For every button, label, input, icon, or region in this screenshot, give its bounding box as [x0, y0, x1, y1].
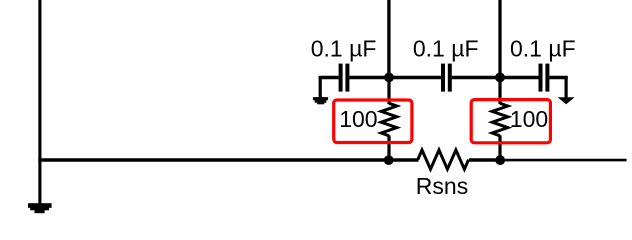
wire: top vertical feed to node A — [387, 0, 390, 77]
svg-text:0.1 µF: 0.1 µF — [510, 35, 576, 61]
junction: node B upper (caps rail / R2 top) — [495, 73, 505, 83]
wire: C2 right plate to node B — [452, 76, 500, 80]
svg-text:0.1 µF: 0.1 µF — [311, 35, 377, 61]
junction: bottom node B (R2 bottom / sense line) — [495, 155, 505, 165]
resistor Rsns horizontal zigzag — [418, 150, 469, 169]
svg-text:100: 100 — [339, 106, 377, 132]
wire: node B to C3 left plate — [500, 76, 539, 80]
capacitor C1 0.1uF plates — [341, 64, 348, 92]
wire: C3 right lead — [549, 76, 567, 80]
resistor R1 100 ohm vertical zigzag — [381, 103, 397, 136]
wire: node A to C2 left plate — [389, 76, 441, 80]
capacitor C2 0.1uF plates — [443, 64, 450, 92]
wire: left vertical net (input rail) — [38, 0, 41, 205]
svg-text:0.1 µF: 0.1 µF — [413, 35, 479, 61]
resistor R2 100 ohm vertical zigzag — [492, 103, 508, 136]
junction: bottom node A (R1 bottom / sense line) — [384, 155, 394, 165]
wire: R1 top lead (node A down to zigzag) — [387, 77, 390, 104]
wire: bottom horizontal net (sense line, left of Rsns) — [38, 158, 418, 162]
wire: bottom horizontal net (right of right node, thinner) — [500, 159, 626, 162]
junction: node A upper (caps rail / R1 top) — [384, 73, 394, 83]
highlight box: red rounded rectangle around R2 — [471, 100, 550, 143]
wire: stub down from C1 left lead to ground — [319, 76, 322, 97]
wire: R1 bottom lead (zigzag down to bottom node) — [387, 135, 390, 160]
wire: C1 right plate to node A — [349, 76, 389, 80]
highlight box: red rounded rectangle around R1 — [334, 100, 412, 143]
ground: triangle ground under C3 right lead — [558, 97, 575, 104]
wire: stub down from C3 right lead to ground arrow — [564, 76, 567, 98]
wire: R2 top lead (node B down to zigzag) — [498, 77, 501, 104]
capacitor C3 0.1uF plates — [541, 64, 548, 92]
svg-text:Rsns: Rsns — [416, 173, 468, 199]
ground: small stepped ground under C1 left lead — [313, 97, 328, 104]
wire: top vertical feed to node B — [498, 0, 501, 77]
ground: main ground symbol bottom-left — [28, 203, 52, 213]
wire: R2 bottom lead (zigzag down to bottom node) — [498, 135, 501, 160]
svg-text:100: 100 — [510, 106, 548, 132]
wire: bottom horizontal net (between Rsns and right node) — [469, 158, 500, 162]
wire: capacitor row, C1 left lead — [319, 76, 339, 80]
